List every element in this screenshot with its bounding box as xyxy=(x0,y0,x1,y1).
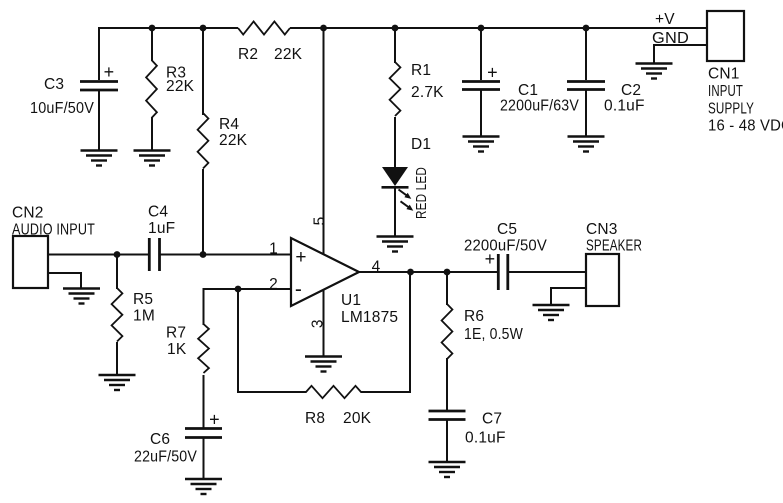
svg-text:CN2: CN2 xyxy=(12,205,44,222)
svg-text:CN1: CN1 xyxy=(708,66,740,83)
svg-text:1K: 1K xyxy=(167,341,187,358)
svg-text:R4: R4 xyxy=(219,116,239,133)
svg-text:R1: R1 xyxy=(411,62,431,79)
svg-text:16 - 48 VDC: 16 - 48 VDC xyxy=(708,118,783,135)
svg-text:1E, 0.5W: 1E, 0.5W xyxy=(464,326,523,343)
svg-text:C7: C7 xyxy=(482,411,502,428)
svg-text:U1: U1 xyxy=(341,292,361,309)
svg-text:R8: R8 xyxy=(305,410,325,427)
svg-text:RED LED: RED LED xyxy=(414,167,430,219)
svg-text:R5: R5 xyxy=(133,291,153,308)
svg-text:SPEAKER: SPEAKER xyxy=(586,238,642,255)
svg-text:3: 3 xyxy=(310,319,327,328)
svg-text:C1: C1 xyxy=(518,82,538,99)
svg-text:2200uF/50V: 2200uF/50V xyxy=(464,238,547,255)
svg-text:4: 4 xyxy=(372,259,381,276)
svg-text:22K: 22K xyxy=(219,132,248,149)
svg-text:2: 2 xyxy=(269,276,278,293)
svg-text:0.1uF: 0.1uF xyxy=(604,98,645,115)
svg-text:R2: R2 xyxy=(238,46,258,63)
svg-text:C2: C2 xyxy=(621,82,641,99)
svg-text:R6: R6 xyxy=(464,308,484,325)
svg-text:-: - xyxy=(295,278,302,301)
svg-text:1M: 1M xyxy=(133,308,155,325)
svg-text:C6: C6 xyxy=(150,431,170,448)
svg-text:+: + xyxy=(487,63,498,83)
svg-text:22K: 22K xyxy=(274,46,303,63)
svg-text:LM1875: LM1875 xyxy=(341,309,398,326)
svg-text:22uF/50V: 22uF/50V xyxy=(134,449,197,466)
svg-text:CN3: CN3 xyxy=(586,221,618,238)
svg-text:+: + xyxy=(209,410,220,430)
svg-text:22K: 22K xyxy=(166,78,195,95)
svg-text:C3: C3 xyxy=(44,76,64,93)
svg-text:SUPPLY: SUPPLY xyxy=(708,101,754,118)
svg-text:5: 5 xyxy=(312,217,329,226)
svg-text:INPUT: INPUT xyxy=(708,83,743,100)
svg-text:10uF/50V: 10uF/50V xyxy=(30,100,94,117)
svg-text:+: + xyxy=(485,249,496,269)
svg-text:+V: +V xyxy=(655,11,675,28)
svg-text:AUDIO INPUT: AUDIO INPUT xyxy=(12,222,95,239)
svg-text:C5: C5 xyxy=(497,221,517,238)
svg-text:D1: D1 xyxy=(411,136,431,153)
svg-text:+: + xyxy=(104,62,115,82)
svg-text:1: 1 xyxy=(269,241,278,258)
svg-text:2.7K: 2.7K xyxy=(411,84,444,101)
svg-text:R7: R7 xyxy=(166,325,186,342)
svg-text:1uF: 1uF xyxy=(148,220,175,237)
svg-text:2200uF/63V: 2200uF/63V xyxy=(500,98,579,115)
svg-text:+: + xyxy=(295,247,306,268)
svg-text:0.1uF: 0.1uF xyxy=(465,430,506,447)
svg-text:20K: 20K xyxy=(343,410,372,427)
svg-text:GND: GND xyxy=(652,30,689,47)
svg-text:C4: C4 xyxy=(148,204,168,221)
